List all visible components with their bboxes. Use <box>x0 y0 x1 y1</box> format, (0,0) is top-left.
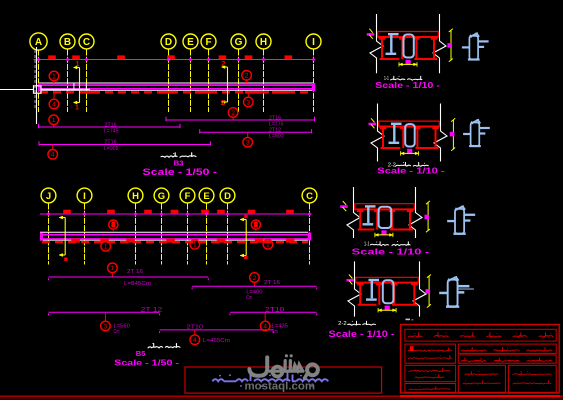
svg-text:A: A <box>35 37 42 48</box>
svg-text:2T10: 2T10 <box>265 308 285 314</box>
section 1-1 A rib bottoms <box>380 58 400 60</box>
grid line H <box>263 50 265 113</box>
svg-text:E: E <box>187 37 194 48</box>
svg-text:C: C <box>83 37 90 48</box>
crosshair pick box <box>34 86 42 93</box>
section 1-1 B right column <box>409 187 422 238</box>
grid line A <box>38 50 40 113</box>
svg-text:F: F <box>205 37 211 48</box>
title block cell right-2 <box>458 355 556 363</box>
svg-text:2T16: 2T16 <box>269 115 281 121</box>
title block cell right-3 <box>508 365 556 392</box>
stirrup bending detail 1 <box>469 33 479 59</box>
section 2-2 A slab soffit line <box>379 126 440 128</box>
svg-text:H: H <box>132 191 139 202</box>
section 1-1 B ribs <box>359 209 361 229</box>
dim 2T16 L=845Cm <box>108 263 118 273</box>
svg-text:F: F <box>185 191 191 202</box>
svg-text:Cm: Cm <box>246 295 252 301</box>
svg-text:4: 4 <box>51 152 55 159</box>
svg-text:1: 1 <box>52 73 56 80</box>
svg-text:1: 1 <box>75 59 79 68</box>
section 1-1 B rib bottoms <box>358 229 375 231</box>
beam elevation bottom plan <box>40 231 308 233</box>
svg-text:B: B <box>64 37 71 48</box>
svg-text:Scale - 1/10 -: Scale - 1/10 - <box>377 166 445 176</box>
svg-text:H: H <box>260 37 267 48</box>
support hatch under beam <box>40 91 310 93</box>
white support ticks <box>73 83 75 91</box>
grid circle D bottom <box>220 188 235 203</box>
dim 2T16 L=400 <box>250 273 260 283</box>
section 1-1 B right magenta square <box>425 215 430 220</box>
grid circle E bottom <box>199 188 214 203</box>
stirrup bending detail 3 <box>455 206 465 233</box>
beam end magenta block right <box>312 83 315 91</box>
grid line C bottom <box>309 204 311 265</box>
section 1-1 B left slab marks <box>340 205 348 208</box>
title block header text <box>408 333 422 337</box>
svg-text:2: 2 <box>253 275 257 282</box>
grid circle I bottom <box>77 188 92 203</box>
bar mark circle 4 below beam <box>49 99 59 109</box>
plan 1 title arabic <box>161 153 177 158</box>
section 1-1 B right height dim <box>427 202 429 231</box>
title block outer frame <box>401 325 560 394</box>
section 2-2 A rib bottoms <box>381 147 401 149</box>
section 2-2 B blue stirrup <box>383 280 394 303</box>
svg-text:1: 1 <box>266 242 270 249</box>
grid line I bottom <box>84 204 86 265</box>
section 2-2 A yellow width dim <box>401 152 419 154</box>
grid line I <box>313 50 315 113</box>
svg-text:2T16: 2T16 <box>105 122 117 128</box>
svg-text:Scale - 1/10 -: Scale - 1/10 - <box>375 80 440 90</box>
section 2-2 B ribs <box>359 283 361 305</box>
grid line H bottom <box>135 204 137 265</box>
bar mark circle 5 bottom-2 <box>251 220 260 229</box>
grid circle C bottom <box>302 188 317 203</box>
section 1-1 A magenta bottom square <box>406 60 411 65</box>
section 1-1 B magenta bottom square <box>381 230 386 235</box>
drawing title arabic text <box>296 379 328 381</box>
svg-text:G: G <box>235 37 243 48</box>
bar mark circle 5 bottom-1 <box>109 220 118 229</box>
section 2-2 A blue stirrup <box>405 124 415 146</box>
title block header cell <box>405 329 556 341</box>
beam white highlight near cursor <box>41 89 90 91</box>
bar mark circle 1 under beam c <box>263 240 273 250</box>
crosshair horizontal <box>0 89 34 91</box>
red column squares on bottom chord <box>63 210 71 214</box>
section 2-2 B right height dim <box>428 276 430 307</box>
section 2-2 B right column <box>413 261 426 316</box>
svg-text:2T 16: 2T 16 <box>264 280 280 286</box>
svg-text:1: 1 <box>193 242 197 249</box>
section 1-1 A slab top line <box>378 31 439 33</box>
support hatch under bottom beam <box>42 241 308 243</box>
section 2-2 A left slab marks <box>369 123 377 126</box>
section 1-1 B slab edge connectors <box>354 204 356 210</box>
stirrup zone bracket 1 <box>79 68 81 103</box>
svg-text:2: 2 <box>221 59 225 68</box>
svg-text:1: 1 <box>111 265 115 272</box>
svg-text:4: 4 <box>193 337 197 344</box>
white specks above title block <box>406 319 411 321</box>
grid line F bottom <box>187 204 189 265</box>
bottom bracket left <box>64 218 66 256</box>
svg-text:L=465Cm: L=465Cm <box>203 338 230 344</box>
grid circle G bottom <box>154 188 169 203</box>
grid circle F <box>201 34 216 49</box>
svg-text:E: E <box>203 191 209 202</box>
grid line B <box>67 50 69 113</box>
section 1-1 B blue stirrup <box>379 207 392 228</box>
bottom red border line <box>0 395 563 397</box>
section 1-1 B slab soffit line <box>355 208 415 210</box>
section 1-1 B yellow width dim <box>375 234 393 236</box>
section 2-2 A slab edge connectors <box>378 121 380 126</box>
svg-text:2T16: 2T16 <box>105 140 117 146</box>
section 2-2 B left slab marks <box>346 279 354 282</box>
svg-text:I: I <box>312 37 315 48</box>
section 1-1 A right column <box>433 14 446 73</box>
section 2-2 B slab top line <box>356 276 419 278</box>
grid line D <box>168 50 170 113</box>
title block cell left-3 <box>405 365 456 381</box>
stirrup zone bracket 2 <box>227 67 229 102</box>
svg-text:1: 1 <box>104 244 108 251</box>
dim line 2T16 L=905 <box>39 144 210 146</box>
bar mark circle 1 under beam a <box>101 242 111 252</box>
section 2-2 B magenta bottom square <box>385 306 390 311</box>
section 2-2 A magenta bottom square <box>407 149 412 154</box>
section 1-1 A slab soffit line <box>378 36 439 38</box>
grid line C <box>86 50 88 113</box>
svg-text:2T12: 2T12 <box>269 128 281 134</box>
bar mark circle 3 below beam <box>244 97 254 107</box>
bar mark circle 1 top <box>49 71 59 81</box>
section 1-1 B blue cranked bar <box>365 205 376 207</box>
section 1-1 B left column <box>347 187 360 238</box>
section 2-2 B slab soffit line <box>356 282 419 284</box>
section 1-1 A right magenta square <box>447 43 452 48</box>
svg-text:Scale - 1/50 -: Scale - 1/50 - <box>114 357 179 367</box>
grid line G <box>238 50 240 113</box>
svg-text:L=800: L=800 <box>269 134 284 140</box>
grid line D bottom <box>227 204 229 265</box>
section 1-1 A blue stirrup <box>404 35 414 58</box>
section 2-2 A ribs <box>382 127 384 149</box>
grid circle A <box>30 33 47 50</box>
svg-text:Scale - 1/50 -: Scale - 1/50 - <box>143 167 218 177</box>
bar mark circle 2 top <box>242 71 252 81</box>
svg-text:2-2: 2-2 <box>338 321 347 327</box>
section 2-2 A left column <box>371 104 384 162</box>
dim line 2T12 L=800 <box>200 131 312 133</box>
grid line E bottom <box>206 204 208 265</box>
section 2-2 B slab edge connectors <box>355 277 357 282</box>
svg-text:mostaql.com: mostaql.com <box>245 381 316 393</box>
title block left-mid text <box>408 348 452 352</box>
svg-text:Cm: Cm <box>114 329 120 335</box>
section 2-2 A right column <box>434 104 447 162</box>
svg-text:3: 3 <box>104 323 108 330</box>
grid circle H bottom <box>128 188 143 203</box>
section 1-1 A ribs <box>381 37 383 59</box>
section 2-2 B rib bottoms <box>358 304 377 306</box>
title block cell right-top <box>458 344 556 353</box>
section 1-1 B slab top line <box>355 203 415 205</box>
svg-text:L=905: L=905 <box>104 146 119 152</box>
title block cell mid-3 <box>458 365 505 392</box>
svg-text:4: 4 <box>52 101 56 108</box>
crosshair vertical <box>36 47 38 124</box>
bottom chord line <box>40 213 312 215</box>
svg-text:2T 16: 2T 16 <box>127 269 143 275</box>
dim line 2T16 L=775 <box>228 108 238 118</box>
grid circle C <box>79 34 94 49</box>
svg-text:Scale - 1/10 -: Scale - 1/10 - <box>352 248 430 257</box>
grid line G bottom <box>161 204 163 265</box>
stirrup bending detail 2 <box>471 120 481 146</box>
svg-text:2: 2 <box>245 73 249 80</box>
drawing title box <box>185 367 382 393</box>
section 2-2 A slab top line <box>379 120 440 122</box>
watermark mostaql logo <box>249 354 318 378</box>
grid circle B <box>60 34 75 49</box>
section 2-2 A right height dim <box>452 120 454 150</box>
grid circle F bottom <box>180 188 195 203</box>
svg-text:3: 3 <box>246 140 250 147</box>
svg-text:D: D <box>224 191 231 202</box>
grid line E <box>190 50 192 113</box>
grid line J bottom <box>48 204 50 265</box>
grid line F <box>208 50 210 113</box>
section 2-2 B right magenta square <box>426 289 431 294</box>
section 1-1 A yellow width dim <box>399 63 417 65</box>
beam elevation top plan <box>39 82 314 84</box>
gray dashed edge near A <box>34 50 36 108</box>
svg-text:4: 4 <box>263 323 267 330</box>
section 2-2 B yellow width dim <box>378 309 396 311</box>
title block cell left-4 <box>405 384 456 393</box>
section 2-2 A right magenta square <box>450 132 455 137</box>
section 1-1 A left column <box>370 14 383 73</box>
stirrup bending detail 4 <box>448 277 459 306</box>
plan 2 title arabic <box>148 344 163 348</box>
title block cell left-mid <box>405 344 456 363</box>
svg-text:G: G <box>158 191 165 202</box>
section 1-1 A slab edge connectors <box>377 32 379 38</box>
grid circle I <box>306 34 321 49</box>
svg-text:D: D <box>165 37 172 48</box>
bottom bracket right <box>245 220 247 256</box>
svg-text:L=845Cm: L=845Cm <box>124 281 151 287</box>
svg-text:2: 2 <box>231 110 235 117</box>
svg-text:2: 2 <box>221 98 225 107</box>
grid circle E <box>183 34 198 49</box>
bottom beam end blocks <box>308 233 311 241</box>
section 1-1 A right height dim <box>450 30 452 61</box>
top chord line <box>34 59 315 61</box>
svg-text:I: I <box>83 191 86 202</box>
grid circle D <box>161 34 176 49</box>
svg-text:2T 12: 2T 12 <box>141 308 164 314</box>
beam end magenta block left <box>38 83 41 91</box>
dim line 2T16 L=745 <box>49 115 59 125</box>
red column squares on top chord <box>48 55 56 59</box>
section 1-1 A left slab marks <box>367 33 375 36</box>
svg-text:1: 1 <box>52 117 56 124</box>
section 2-2 B left column <box>348 261 361 316</box>
svg-text:L=745: L=745 <box>104 129 119 135</box>
svg-text:L=775: L=775 <box>269 121 284 127</box>
section 1-1 A blue cranked bar <box>388 33 399 35</box>
chord intersection dots top <box>37 58 41 62</box>
svg-text:J: J <box>46 191 51 202</box>
grid circle J bottom <box>41 188 56 203</box>
chord intersection dots bottom <box>47 212 51 216</box>
section 2-2 A blue cranked bar <box>391 123 402 125</box>
svg-text:1: 1 <box>75 103 79 112</box>
svg-text:Scale - 1/10 -: Scale - 1/10 - <box>329 328 395 339</box>
section 2-2 B blue cranked bar <box>369 279 380 281</box>
grid circle G <box>231 34 246 49</box>
bar mark circle 1 under beam b <box>190 240 200 250</box>
svg-text:C: C <box>306 191 313 202</box>
svg-text:Cm: Cm <box>272 329 278 335</box>
grid circle H <box>256 34 271 49</box>
svg-text:3: 3 <box>246 99 250 106</box>
